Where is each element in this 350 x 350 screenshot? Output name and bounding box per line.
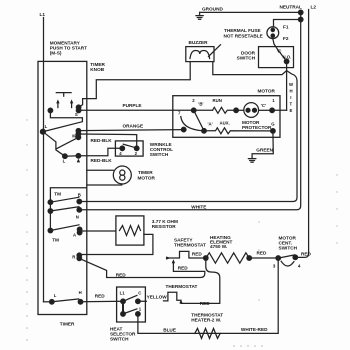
svg-text:M: M xyxy=(72,134,76,139)
svg-text:THERMOSTAT: THERMOSTAT xyxy=(174,243,206,248)
svg-text:F2: F2 xyxy=(283,36,289,41)
svg-text:THERMAL FUSE: THERMAL FUSE xyxy=(224,28,261,33)
svg-text:'B': 'B' xyxy=(198,102,203,107)
svg-text:4: 4 xyxy=(298,263,301,268)
svg-text:PURPLE: PURPLE xyxy=(123,103,142,108)
svg-text:GROUND: GROUND xyxy=(202,7,223,12)
svg-text:E: E xyxy=(290,108,293,113)
svg-text:RED: RED xyxy=(116,273,127,278)
svg-text:RED: RED xyxy=(257,251,268,256)
svg-text:BUZZER: BUZZER xyxy=(189,40,209,45)
svg-text:A: A xyxy=(73,233,76,238)
svg-text:RED: RED xyxy=(95,294,106,299)
svg-text:SWITCH: SWITCH xyxy=(237,56,256,61)
svg-text:NEUTRAL: NEUTRAL xyxy=(280,5,303,10)
svg-text:TM: TM xyxy=(54,191,61,196)
svg-text:RED: RED xyxy=(192,251,203,256)
svg-text:RED: RED xyxy=(178,265,189,270)
svg-text:RED: RED xyxy=(301,252,312,257)
svg-text:TIMER: TIMER xyxy=(60,322,75,327)
svg-text:I: I xyxy=(290,95,291,100)
svg-text:F1: F1 xyxy=(283,25,289,30)
svg-text:T: T xyxy=(290,102,293,107)
svg-text:NOT RESETABLE: NOT RESETABLE xyxy=(224,34,263,39)
svg-text:WHITE: WHITE xyxy=(191,204,206,209)
svg-text:YELLOW: YELLOW xyxy=(147,295,168,300)
svg-text:B: B xyxy=(78,192,81,197)
svg-text:ORANGE: ORANGE xyxy=(123,124,144,129)
svg-text:L: L xyxy=(45,124,48,129)
svg-text:RED: RED xyxy=(200,301,211,306)
svg-text:L2: L2 xyxy=(311,4,317,9)
svg-text:RESISTOR: RESISTOR xyxy=(152,224,176,229)
svg-text:TM: TM xyxy=(52,238,59,243)
svg-text:C: C xyxy=(138,290,141,295)
svg-text:C: C xyxy=(278,48,281,53)
svg-text:H: H xyxy=(79,290,82,295)
svg-text:3: 3 xyxy=(273,264,276,269)
svg-text:(M-S): (M-S) xyxy=(50,51,62,56)
svg-text:AUX.: AUX. xyxy=(220,120,230,125)
svg-text:MOTOR: MOTOR xyxy=(258,88,276,93)
svg-text:N.O.: N.O. xyxy=(283,55,292,60)
svg-text:'A': 'A' xyxy=(208,121,213,126)
svg-text:BLUE: BLUE xyxy=(163,327,176,332)
svg-text:'C': 'C' xyxy=(261,103,266,108)
svg-text:PROTECTOR: PROTECTOR xyxy=(242,125,272,130)
svg-text:RED-BLK: RED-BLK xyxy=(91,138,113,143)
svg-text:RED-BLK: RED-BLK xyxy=(91,158,113,163)
svg-text:S: S xyxy=(75,112,78,117)
svg-text:SWITCH: SWITCH xyxy=(110,336,129,341)
svg-text:H: H xyxy=(290,89,293,94)
svg-text:TIMER: TIMER xyxy=(138,170,153,175)
svg-text:L: L xyxy=(54,293,57,298)
svg-text:N: N xyxy=(76,214,79,219)
svg-text:L1: L1 xyxy=(40,12,46,17)
svg-text:SWITCH: SWITCH xyxy=(279,246,298,251)
svg-text:WHITE-RED: WHITE-RED xyxy=(241,327,268,332)
svg-text:HEATER-2 W.: HEATER-2 W. xyxy=(191,317,221,322)
svg-text:L: L xyxy=(63,158,66,163)
svg-text:4750 W.: 4750 W. xyxy=(210,244,227,249)
svg-text:GREEN: GREEN xyxy=(256,147,273,152)
svg-text:THERMOSTAT: THERMOSTAT xyxy=(166,284,198,289)
svg-text:SWITCH: SWITCH xyxy=(150,152,169,157)
svg-text:MOTOR: MOTOR xyxy=(138,175,156,180)
svg-text:KNOB: KNOB xyxy=(90,67,104,72)
svg-text:RUN: RUN xyxy=(213,98,222,103)
svg-text:L1: L1 xyxy=(120,290,126,295)
